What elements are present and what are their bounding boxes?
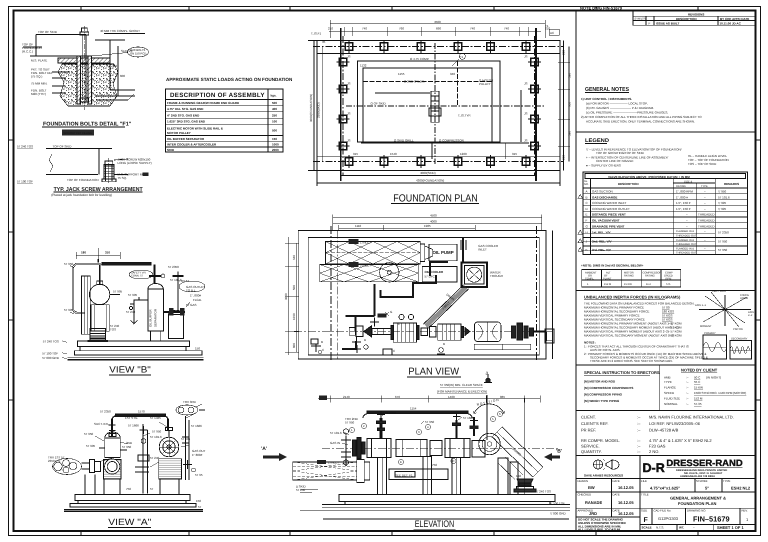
svg-text:H: H (586, 231, 588, 235)
motor pedestal right (498, 458, 508, 495)
svg-text:CLIENT'S REF.: CLIENT'S REF. (581, 421, 608, 426)
dresser-rand logo (643, 458, 744, 478)
separator sphere (89, 268, 120, 305)
svg-text:57 GAS: 57 GAS (186, 303, 197, 307)
svg-text:GAS IN: GAS IN (330, 441, 340, 445)
rotation arc (473, 404, 504, 414)
svg-text:750: 750 (126, 487, 131, 491)
svg-text:15 KW: 15 KW (624, 283, 632, 286)
belt drive diagonal (424, 285, 469, 328)
svg-text:[M] COMPRESSOR PIPING: [M] COMPRESSOR PIPING (584, 393, 623, 397)
svg-text:1540: 1540 (390, 152, 397, 156)
svg-text:UNBALANCED INERTIA FORCES (IN: UNBALANCED INERTIA FORCES (IN KILOGRAMS) (584, 295, 681, 300)
svg-text::–: :– (686, 402, 689, 406)
svg-text:D-R: D-R (643, 461, 665, 475)
svg-text:4000: 4000 (430, 219, 437, 223)
svg-text:ISSUE AS BUILT: ISSUE AS BUILT (656, 22, 680, 26)
svg-text:▽ 240 TOS: ▽ 240 TOS (536, 490, 551, 494)
svg-text:APPROXIMATE STATIC LOADS AC: APPROXIMATE STATIC LOADS ACTING ON FOUND… (166, 77, 293, 82)
left small valves (341, 436, 351, 445)
svg-text:57 1666: 57 1666 (463, 416, 474, 420)
svg-text:NOTED BY CLIENT: NOTED BY CLIENT (681, 368, 718, 373)
svg-text:TRV 57: TRV 57 (179, 279, 189, 283)
foundation outline (317, 41, 560, 171)
svg-text:BY CHK APPD DATE: BY CHK APPD DATE (720, 17, 749, 21)
svg-text:SIZE &: SIZE & (684, 181, 692, 184)
svg-text:57 240 TOS: 57 240 TOS (43, 340, 59, 344)
svg-text:(FOR MAINTENANCE & ERECTION): (FOR MAINTENANCE & ERECTION) (437, 390, 487, 394)
svg-text:RATING: RATING (624, 275, 634, 278)
svg-text:500: 500 (292, 285, 296, 290)
oil pump box (429, 244, 457, 261)
svg-text:DISTANCE PIECE VENT: DISTANCE PIECE VENT (592, 213, 626, 217)
svg-text:BW: BW (588, 485, 595, 490)
svg-text:57 950: 57 950 (84, 432, 94, 436)
svg-text:CONN. 57: CONN. 57 (131, 275, 144, 278)
svg-text:600: 600 (120, 74, 125, 78)
svg-text:3000: 3000 (284, 293, 288, 300)
svg-text:LONG (LOOSE SUPPLY): LONG (LOOSE SUPPLY) (118, 161, 152, 165)
svg-text:PR REF.: PR REF. (581, 428, 596, 433)
svg-text:1st. REL. V/V: 1st. REL. V/V (592, 231, 611, 235)
svg-text:● – SUPPLY BY OTHERS: ● – SUPPLY BY OTHERS (586, 164, 621, 168)
dark motor block (88, 329, 109, 342)
svg-text:57 000 GRD: 57 000 GRD (42, 356, 60, 360)
svg-text:152 M: 152 M (694, 397, 703, 401)
svg-text:THREADED OUT: THREADED OUT (676, 243, 697, 246)
svg-text:75 MM MIN.: 75 MM MIN. (31, 82, 48, 86)
svg-text:1.5", 150 #: 1.5", 150 # (676, 201, 691, 205)
svg-text:DESCRIPTION OF ASSEMBLY: DESCRIPTION OF ASSEMBLY (170, 92, 265, 99)
anchor bolts right column (528, 58, 541, 149)
leaders (114, 159, 128, 160)
svg-text:FLGD.: FLGD. (193, 298, 202, 302)
svg-text:NOMINAL: NOMINAL (664, 402, 678, 406)
svg-text:JS: JS (347, 112, 351, 116)
centerline (322, 447, 558, 449)
svg-text:RPM: RPM (666, 278, 672, 281)
svg-text:RATING: RATING (676, 185, 686, 188)
svg-text:SECONDARY: SECONDARY (731, 338, 748, 341)
svg-text:B: B (443, 342, 445, 346)
svg-text:DLW–45728 A/B: DLW–45728 A/B (649, 428, 679, 433)
svg-text:500: 500 (272, 101, 277, 105)
svg-text:NOTE DWG FIN-51679: NOTE DWG FIN-51679 (580, 6, 623, 11)
svg-text:2000: 2000 (272, 148, 279, 152)
svg-text:16.12.05: 16.12.05 (618, 500, 634, 505)
special instructions + noted by client (584, 368, 746, 407)
svg-text:VALVE ELEVATION ABOVE +PROPOSE: VALVE ELEVATION ABOVE +PROPOSED DATUM + … (608, 175, 690, 179)
svg-text:640: 640 (292, 255, 296, 260)
general notes (581, 86, 702, 124)
svg-text:DATE: DATE (613, 493, 620, 497)
skid base elevation (300, 489, 570, 519)
svg-text:FOUNDATION PLAN: FOUNDATION PLAN (393, 193, 477, 204)
svg-text:(a) FOR MOTOR —————— LOCAL STO: (a) FOR MOTOR —————— LOCAL STOP, (586, 102, 648, 106)
svg-text:JS: JS (524, 55, 528, 59)
svg-text:VIEW "A": VIEW "A" (108, 517, 151, 527)
svg-text:57 240 TOS: 57 240 TOS (17, 145, 33, 149)
title block rows (576, 479, 756, 532)
svg-text:+NOTE: DIMS IN 2nd AS DECIMAL: +NOTE: DIMS IN 2nd AS DECIMAL BELOW+ (581, 264, 644, 268)
svg-text:57 1465: 57 1465 (150, 416, 161, 420)
svg-text:TROUGH: TROUGH (490, 274, 503, 278)
view A (48, 400, 206, 527)
svg-text:75 SQ.: 75 SQ. (118, 176, 128, 180)
horn icon (606, 460, 612, 469)
slide rail (474, 344, 531, 349)
unbalanced inertia forces (584, 290, 754, 363)
svg-text:T.JS.TYP.: T.JS.TYP. (458, 114, 471, 118)
bottom dimensions (317, 171, 560, 187)
svg-text:(b) PR. GAUGES ——————— P & I D: (b) PR. GAUGES ——————— P & I DIAGRAM. (586, 106, 654, 110)
svg-text:4500: 4500 (430, 214, 437, 218)
top dimension (76, 248, 120, 262)
svg-text:ACCURATE SKID ERECTION, ONLY T: ACCURATE SKID ERECTION, ONLY TERMINAL CO… (586, 120, 695, 124)
svg-text:1060: 1060 (292, 313, 296, 320)
svg-text:660: 660 (568, 102, 572, 107)
svg-text:(75 SQ.): (75 SQ.) (31, 75, 42, 79)
svg-text:RATING: RATING (645, 275, 655, 278)
svg-text:DESCRIPTION: DESCRIPTION (618, 182, 639, 186)
svg-text:ALL LEVELS REF. TO DATUM: ALL LEVELS REF. TO DATUM (578, 528, 621, 532)
svg-text:F: F (649, 22, 651, 26)
overhead insulated pipe (98, 259, 151, 284)
svg-text:690: 690 (436, 27, 441, 31)
cylinder 2 ribbed (438, 324, 461, 340)
separator (576, 131, 756, 133)
svg-text:11.2: 11.2 (646, 283, 651, 286)
support box under sphere (91, 305, 109, 332)
svg-text:210: 210 (562, 50, 566, 55)
svg-text:150: 150 (516, 474, 521, 478)
svg-text:2nd. REL. V/V: 2nd. REL. V/V (592, 239, 612, 243)
center vessel (oil buffer separator) (148, 265, 165, 342)
svg-text:1570: 1570 (138, 410, 145, 414)
svg-text:[M] MOTOR AND ROD: [M] MOTOR AND ROD (584, 380, 616, 384)
separator (576, 454, 756, 456)
svg-text:940: 940 (450, 72, 455, 76)
svg-text:1 INLET: 1 INLET (360, 241, 371, 245)
cylinder 1 ribbed (393, 323, 416, 342)
flywheel + guard (462, 395, 543, 480)
svg-text:SEPARATOR: SEPARATOR (154, 308, 158, 327)
svg-text:760: 760 (399, 27, 404, 31)
svg-text:RR COMPR. MODEL.: RR COMPR. MODEL. (581, 438, 620, 443)
right assembly (aftercooler vessel) (164, 272, 191, 339)
svg-text:SPEED: SPEED (664, 391, 675, 395)
svg-text:250: 250 (272, 113, 277, 117)
concrete block speckled (58, 64, 118, 106)
svg-text:1500 SYNCHRO. 1440 RPM (MOTOR): 1500 SYNCHRO. 1440 RPM (MOTOR) (694, 391, 746, 395)
svg-text:57 1666: 57 1666 (128, 424, 139, 428)
left small pipes of vessel (129, 297, 148, 324)
svg-text:– 57 KGM: – 57 KGM (668, 334, 682, 338)
svg-text:FOUNDATION PLAN: FOUNDATION PLAN (678, 501, 716, 506)
assembly loads table (166, 77, 294, 152)
svg-text:2–2: 2–2 (748, 314, 753, 317)
svg-text:575: 575 (666, 283, 671, 286)
foundation plan (308, 20, 572, 204)
level labels (42, 340, 200, 361)
svg-text:E: E (400, 460, 402, 464)
svg-text:STROKE: STROKE (696, 479, 708, 483)
svg-text:450: 450 (112, 64, 117, 68)
svg-text:TYPE: TYPE (701, 185, 708, 188)
svg-text:57 240: 57 240 (126, 310, 136, 314)
svg-text:1", 800 #: 1", 800 # (676, 195, 688, 199)
small bottom fittings (311, 339, 445, 354)
svg-text:SERVICE.: SERVICE. (581, 444, 600, 449)
svg-text:TITLE: TITLE (641, 493, 649, 497)
vertical valve stack over cyl1 (380, 418, 383, 438)
svg-text:57 995: 57 995 (86, 444, 96, 448)
cooler box 2 (422, 267, 457, 282)
svg-text:4000(SKID): 4000(SKID) (420, 171, 436, 175)
svg-text:WT.: WT. (679, 526, 684, 530)
svg-text:1.625" 3RD STG. GAS END: 1.625" 3RD STG. GAS END (167, 120, 206, 124)
svg-text:JS: JS (524, 112, 528, 116)
crank end flanges (349, 328, 355, 336)
extra top labels (330, 411, 474, 445)
wave box 1 (703, 335, 727, 359)
svg-text:F: F (644, 517, 649, 524)
svg-text:1000: 1000 (272, 143, 279, 147)
svg-text:INTER COOLER & AFTERCOOLER: INTER COOLER & AFTERCOOLER (167, 143, 217, 147)
svg-text:2 INLET: 2 INLET (360, 264, 371, 268)
svg-text:AHMEDABAD-382 728 INDIA: AHMEDABAD-382 728 INDIA (680, 475, 715, 478)
svg-text:JS: JS (347, 55, 351, 59)
svg-text:2140: 2140 (343, 395, 350, 399)
svg-text:J: J (486, 371, 488, 376)
svg-text:(Placed at jack foundation bol: (Placed at jack foundation bolt for leve… (51, 193, 112, 197)
svg-text:1 INLET: 1 INLET (328, 461, 339, 465)
svg-text:F1: F1 (460, 55, 464, 59)
crosshead ladder (431, 91, 439, 122)
svg-text:WITHOUT PKT FILLING: WITHOUT PKT FILLING (64, 132, 92, 135)
svg-text:OIL PUMP: OIL PUMP (433, 250, 454, 255)
svg-text:57.35: 57.35 (694, 402, 702, 406)
svg-text:A: A (586, 190, 588, 194)
svg-text:COOLING WATER INLET: COOLING WATER INLET (592, 201, 627, 205)
svg-text:▽ 995: ▽ 995 (718, 207, 726, 211)
svg-text:865: 865 (500, 395, 505, 399)
svg-text:SEE DET. F1: SEE DET. F1 (395, 474, 413, 478)
svg-text:B: B (321, 340, 323, 344)
svg-text:57 100 TOF: 57 100 TOF (17, 180, 33, 184)
svg-text:THREADED OUT: THREADED OUT (676, 252, 697, 255)
separator (576, 364, 756, 366)
frame extension (389, 469, 448, 480)
svg-text:4.75" & 4" & 1.625" X 5" ESH2: 4.75" & 4" & 1.625" X 5" ESH2 NL2 (649, 438, 712, 443)
skid base (64, 495, 203, 512)
right cylinder head circle (159, 428, 179, 457)
svg-text:'A': 'A' (261, 446, 267, 452)
svg-text:JS: JS (347, 139, 351, 143)
motor cloud left (53, 459, 101, 495)
svg-text:[M] WEIGH TYPE PIPING: [M] WEIGH TYPE PIPING (584, 399, 620, 403)
svg-text:DATE: DATE (613, 479, 620, 483)
svg-text:40 MM THK COMPL. GROUT: 40 MM THK COMPL. GROUT (100, 29, 140, 33)
plan view (284, 214, 554, 394)
svg-text:COOLING WATER OUTLET: COOLING WATER OUTLET (592, 207, 630, 211)
svg-text:57: 57 (150, 487, 154, 491)
svg-text:HORIZ: HORIZ (740, 297, 748, 300)
svg-text:150: 150 (272, 137, 277, 141)
svg-text:PULLEY: PULLEY (479, 82, 491, 86)
pipe sleeve strips (77, 56, 80, 104)
svg-text:OIL BUFFER: OIL BUFFER (149, 309, 153, 327)
svg-text:500: 500 (272, 129, 277, 133)
svg-text:THREADED: THREADED (698, 224, 715, 228)
svg-text:SYM/LTR: SYM/LTR (635, 18, 646, 21)
svg-text:800: 800 (292, 343, 296, 348)
svg-text:FLANGED IN &: FLANGED IN & (676, 230, 694, 233)
svg-text:1) UNIT CONTROL / INSTRUMENTS.: 1) UNIT CONTROL / INSTRUMENTS. (581, 97, 632, 101)
pipes dark runs (342, 238, 466, 350)
svg-text:TRV 3RD: TRV 3RD (183, 400, 197, 404)
svg-text:57 950: 57 950 (152, 430, 162, 434)
svg-text:1985: 1985 (424, 224, 431, 228)
svg-text:50 C: 50 C (694, 376, 701, 380)
frame/motor (474, 322, 501, 342)
svg-text:VIEW "B": VIEW "B" (109, 365, 151, 375)
svg-text:N.T.S.: N.T.S. (656, 526, 664, 530)
top cross valve (149, 275, 161, 277)
svg-text:AMB: AMB (664, 376, 671, 380)
skid base (68, 341, 204, 360)
left-side bolt labels (347, 55, 528, 157)
svg-text:1", 800 RPM: 1", 800 RPM (676, 190, 693, 194)
svg-text:DRESSER-RAND: DRESSER-RAND (666, 458, 743, 468)
legend (585, 138, 729, 168)
svg-text:TOP OF SKID: TOP OF SKID (38, 30, 58, 34)
svg-text:57: 57 (198, 505, 202, 509)
svg-text:Ω COMPRESSOR: Ω COMPRESSOR (439, 139, 465, 143)
svg-text:(R.C.C.): (R.C.C.) (22, 50, 33, 54)
svg-text:SPECIAL INSTRUCTION TO ERECTOR: SPECIAL INSTRUCTION TO ERECTORS (584, 370, 660, 375)
svg-text:57 95: 57 95 (195, 473, 203, 477)
svg-text:740: 740 (470, 27, 475, 31)
svg-text:FLANGED IN &: FLANGED IN & (676, 247, 694, 250)
svg-text:SCALE: SCALE (642, 526, 652, 530)
svg-text:FLANGE: FLANGE (664, 386, 676, 390)
svg-text:57 101.6: 57 101.6 (330, 431, 342, 435)
heavy matchline pair (330, 226, 332, 362)
skid internal outline (346, 43, 544, 164)
svg-text:4.75"x4"x1.625": 4.75"x4"x1.625" (650, 486, 680, 491)
svg-text:PLAN VIEW: PLAN VIEW (408, 367, 459, 378)
svg-text:SIZE: SIZE (641, 509, 647, 513)
wave box 2 (730, 341, 752, 360)
svg-text:57 950: 57 950 (122, 445, 132, 449)
svg-text:PISTON: PISTON (733, 328, 743, 331)
svg-text:ESH2 NL2: ESH2 NL2 (731, 486, 751, 491)
svg-text:REMARKS: REMARKS (724, 182, 739, 186)
svg-text:TOS: TOS (110, 328, 116, 332)
internal labels (360, 57, 494, 143)
svg-text:G12PG303: G12PG303 (658, 516, 679, 521)
svg-text:GENERAL NOTES: GENERAL NOTES (585, 86, 629, 93)
coupling dark stack (511, 326, 516, 338)
J section marker (484, 374, 492, 383)
svg-text:CAD FILE No.: CAD FILE No. (654, 509, 672, 513)
svg-text:GAS SUCTION: GAS SUCTION (592, 190, 613, 194)
svg-text:2580(SKID): 2580(SKID) (317, 102, 321, 118)
svg-text:DRAWN: DRAWN (578, 479, 588, 483)
svg-text:57 950: 57 950 (718, 239, 728, 243)
svg-text:57 240: 57 240 (296, 488, 306, 492)
cylinder 1 (367, 439, 391, 458)
svg-text:E: E (586, 213, 588, 217)
svg-text:VERT. AXIS: VERT. AXIS (712, 290, 726, 293)
right dimension (558, 41, 570, 171)
skid boundary (298, 226, 552, 362)
svg-text:57 2350: 57 2350 (718, 231, 729, 235)
svg-text:OIL COOLER: OIL COOLER (425, 270, 444, 274)
svg-text:1.5", 150 #: 1.5", 150 # (676, 207, 691, 211)
right finned block (159, 459, 182, 495)
revision delta markers (578, 195, 582, 252)
svg-text:1132: 1132 (360, 64, 367, 68)
save resources cell (584, 459, 623, 478)
svg-text:2350 PSI: 2350 PSI (48, 459, 61, 463)
bolt center (83, 26, 85, 110)
svg-text:PLANT: PLANT (603, 278, 612, 281)
svg-text:57 2350: 57 2350 (168, 265, 179, 269)
svg-text:MOMENT: MOMENT (700, 325, 712, 328)
svg-text:OIL BUFFER SEPARATOR: OIL BUFFER SEPARATOR (167, 137, 205, 141)
svg-text:180: 180 (81, 251, 86, 255)
svg-text:(IN NIGHT): (IN NIGHT) (706, 376, 721, 380)
valve elevation table (578, 172, 748, 255)
svg-text:ELEVATION: ELEVATION (415, 519, 455, 530)
client info (581, 415, 734, 455)
svg-text:REV.: REV. (742, 509, 748, 513)
TITLE COLUMN LEFT EDGE (575, 11, 577, 532)
guard tall rect (82, 276, 91, 334)
svg-text:FIN–51679: FIN–51679 (693, 515, 730, 524)
svg-text:REVISIONS: REVISIONS (688, 12, 704, 16)
top horizontal pipe (109, 414, 169, 436)
anchor bolts left column (337, 58, 350, 149)
svg-text:THREADED: THREADED (698, 213, 715, 217)
svg-text:590: 590 (568, 131, 572, 136)
svg-text:JS: JS (524, 139, 528, 143)
svg-text:3000(FOUNDATION): 3000(FOUNDATION) (309, 94, 313, 122)
svg-text:T.JS.F1: T.JS.F1 (311, 32, 322, 36)
svg-text:(c) OIL PRESSURE ————————PRESS: (c) OIL PRESSURE ————————PRESSURE GAUGES… (586, 111, 668, 115)
svg-text:FLANGED IN &: FLANGED IN & (676, 239, 694, 242)
flange stack (353, 440, 356, 456)
compressor train side (341, 411, 485, 467)
svg-text:'B': 'B' (556, 449, 562, 455)
elevation (261, 395, 570, 530)
left dimension lines (285, 237, 299, 355)
svg-text:JS: JS (347, 82, 351, 86)
svg-text:TOP OF FOUNDATION: TOP OF FOUNDATION (67, 178, 99, 182)
gas outlet labels right (179, 279, 205, 307)
svg-text:TYPE: TYPE (664, 380, 672, 384)
svg-text:1ST STG: 1ST STG (125, 416, 138, 420)
svg-text::–: :– (686, 397, 689, 401)
bolt row centerlines (313, 36, 564, 175)
svg-text:PRIMARY: PRIMARY (704, 332, 716, 335)
left finned cylinder with circle (104, 459, 122, 495)
globe icon (593, 460, 602, 469)
svg-text:1460: 1460 (448, 395, 455, 399)
svg-text:150: 150 (195, 347, 200, 351)
